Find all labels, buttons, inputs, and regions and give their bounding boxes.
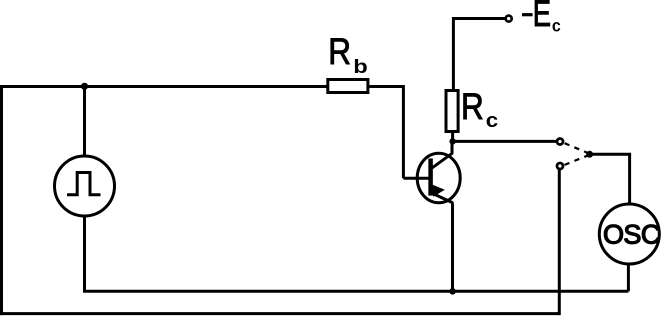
svg-text:b: b xyxy=(353,55,368,77)
label -Ec minus sign xyxy=(522,13,533,16)
wire OSC bottom lead xyxy=(627,264,630,291)
wire emitter lead xyxy=(451,203,454,292)
wire bottom rail upper xyxy=(83,290,628,293)
transistor Q1 base bar xyxy=(428,159,433,196)
wire bottom rail lower xyxy=(0,312,559,315)
resistor Rb body xyxy=(328,80,368,93)
switch S1 terminal 2 xyxy=(557,163,563,169)
wire left vertical xyxy=(0,85,3,315)
switch S1 dashed blade lower xyxy=(565,156,587,165)
wire pulse source top lead xyxy=(83,87,86,158)
wire base horizontal xyxy=(403,177,429,180)
switch S1 pole dot xyxy=(586,151,593,158)
wire Rb to base vertical xyxy=(402,85,405,178)
node junction emitter-bottom xyxy=(449,288,456,295)
resistor Rc body xyxy=(446,91,458,132)
oscilloscope OSC circle xyxy=(599,204,659,264)
pulse generator G1 waveform symbol xyxy=(67,173,101,195)
transistor Q1 circle xyxy=(417,153,460,203)
switch S1 terminal 1 xyxy=(557,139,563,145)
svg-text:OSC: OSC xyxy=(603,220,660,250)
switch S1 dashed blade upper xyxy=(565,143,587,152)
svg-text:E: E xyxy=(533,0,551,34)
wire Rc bottom lead xyxy=(451,132,454,141)
wire pulse source bottom lead xyxy=(83,215,86,291)
transistor Q1 emitter diagonal xyxy=(431,193,453,203)
transistor Q1 collector diagonal xyxy=(430,141,452,169)
wire top rail xyxy=(0,85,327,88)
terminal -Ec open circle xyxy=(506,16,512,22)
svg-text:R: R xyxy=(461,87,484,128)
transistor Q1 emitter arrow xyxy=(431,184,445,197)
node junction pulse-top xyxy=(81,83,88,90)
wire collector horizontal xyxy=(453,140,556,143)
wire switch pole to OSC xyxy=(588,153,631,156)
svg-text:R: R xyxy=(328,32,351,73)
wire OSC top lead xyxy=(628,154,631,203)
pulse generator G1 circle xyxy=(55,156,115,216)
wire switch terminal2 drop xyxy=(558,170,561,315)
svg-text:c: c xyxy=(552,16,561,36)
wire Rb right lead xyxy=(369,85,403,88)
node junction collector xyxy=(449,138,455,144)
svg-text:c: c xyxy=(486,110,499,132)
wire Rc top lead to -Ec xyxy=(453,19,505,90)
